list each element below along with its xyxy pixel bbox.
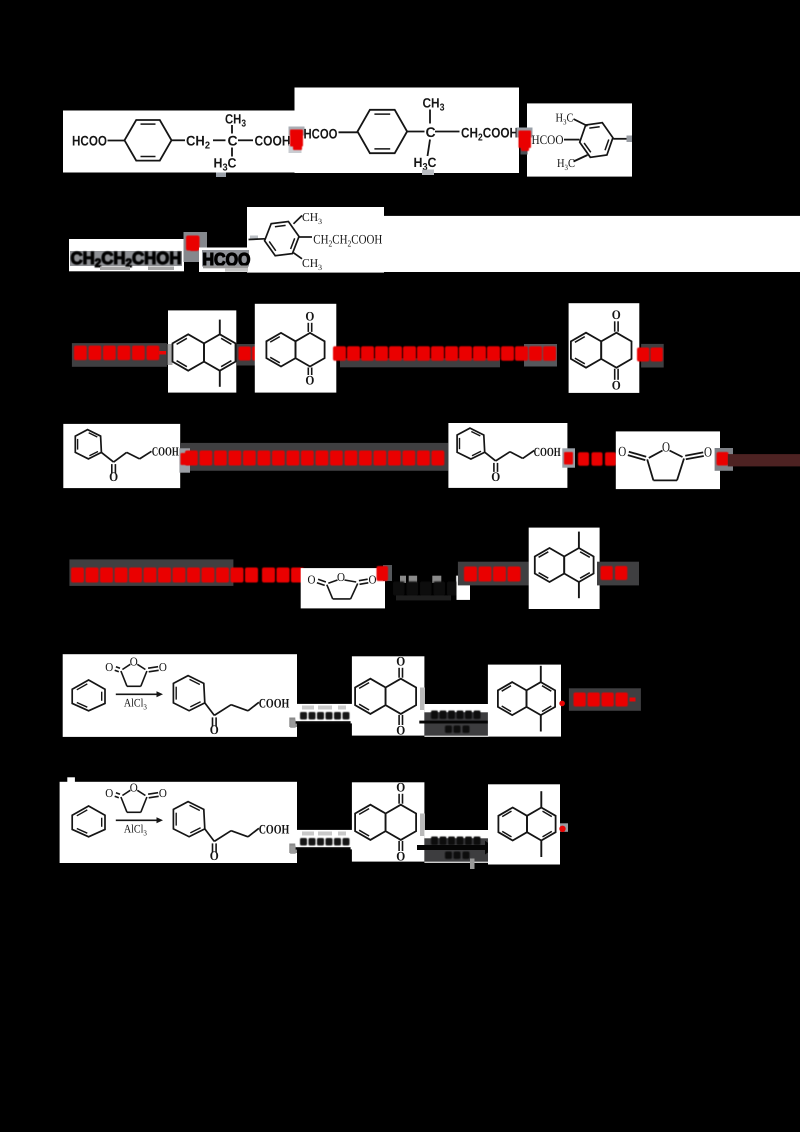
svg-text:O: O [210, 722, 219, 737]
chain row4 a [101, 452, 113, 462]
wire ring-H3C down 3 [574, 155, 588, 162]
grey bar row5 mid [458, 562, 529, 586]
white panel: dimethylnaphthalene product row6 [488, 665, 561, 737]
svg-text:O: O [662, 441, 670, 456]
grey tick right 3 [627, 136, 633, 143]
wire ring-chain row2 [299, 236, 312, 238]
wire O-ring [108, 140, 125, 142]
degraded black condition text row5 [393, 582, 459, 596]
svg-text:O: O [612, 377, 621, 392]
svg-text:COOH: COOH [259, 822, 290, 837]
wire H3C-ring 3 [574, 119, 588, 126]
svg-text:COOH: COOH [259, 696, 290, 711]
grey bar red text row6 [569, 688, 641, 711]
wire CH2-C [213, 139, 226, 141]
wire ring-CH2 [172, 139, 186, 141]
naphthalene row5 [535, 548, 564, 582]
red annotation mark row4 edge a [179, 448, 190, 472]
red annotation text row3 left [74, 346, 159, 361]
red annotation text row4 [185, 451, 444, 466]
wire C-CH2COOH [435, 131, 460, 133]
naphthalene product row7 [498, 808, 527, 841]
grey bar gap2 [424, 712, 493, 735]
red dot row6 [559, 701, 565, 707]
reaction arrow AlCl3 [116, 819, 157, 821]
svg-text:O: O [109, 469, 118, 484]
naphthoquinone row3 b [571, 333, 601, 368]
red annotation text row3 middle [333, 346, 556, 361]
benzene ring (panel 2) [358, 110, 408, 153]
white panel: naphthoquinone product [352, 656, 425, 735]
white panel: dimethylnaphthalene product row7 [488, 784, 560, 864]
grey tick right edge patch1 [289, 718, 297, 728]
svg-text:O: O [396, 653, 405, 668]
white panel: naphthoquinone product [352, 782, 425, 861]
arrow line gap1 [292, 847, 351, 849]
wire ring-right bond 3 [613, 138, 627, 140]
arrow gap2 [417, 845, 485, 850]
svg-text:O: O [704, 446, 712, 461]
white box behind HCOO row2 [199, 248, 260, 273]
grey highlight in box [70, 251, 182, 266]
degraded reagent text gap2 [431, 711, 481, 720]
red annotation mark row3 b [641, 344, 664, 368]
naphthalene product row6 [498, 682, 527, 715]
white strip gap arrow 2 [424, 704, 488, 737]
benzene ring (panel 1) [125, 120, 172, 161]
white panel: trimethylphenyl propanoic acid [247, 207, 384, 273]
degraded reagent text gap2 [431, 837, 481, 846]
benzene reactant [72, 680, 105, 711]
wire left bond row2 [249, 238, 265, 241]
svg-text:O: O [618, 445, 626, 460]
phenyl ring row4 b [457, 428, 485, 459]
red annotation marks row4 right [562, 448, 575, 467]
svg-text:O: O [396, 723, 405, 738]
degraded condition text gap1 [300, 712, 350, 720]
grey bar row5 left [69, 559, 233, 586]
svg-text:O: O [369, 573, 377, 587]
grey smudge right of quinone [420, 688, 425, 711]
white strip gap arrow 1 [295, 704, 352, 724]
phenyl ring row4 a [75, 430, 101, 459]
white panel: benzoylpropionic acid row4 b [448, 423, 567, 488]
red annotation mark row3 a [237, 344, 264, 366]
svg-text:O: O [396, 849, 405, 864]
white strip gap arrow 2 [424, 830, 488, 863]
grey tick right edge patch1 [289, 844, 297, 854]
benzene ring row2 [265, 222, 299, 256]
red dot row7 [560, 823, 568, 832]
red annotation text row5 right [601, 566, 628, 580]
svg-text:COOH: COOH [534, 445, 561, 459]
svg-text:O: O [305, 373, 314, 388]
svg-text:O: O [159, 660, 167, 674]
red annotation mark 1 [289, 127, 305, 136]
white strip gap arrow 1 [295, 830, 352, 850]
benzene reactant [72, 806, 105, 837]
white panel: succinic anhydride row4 [616, 431, 720, 489]
red annotation text row5 left [71, 568, 304, 583]
grey bar gap2 [424, 838, 493, 861]
naphthoquinone scheme [355, 679, 386, 714]
benzene ring (panel 3) [580, 123, 613, 158]
grey tick band top [250, 236, 258, 240]
white panel: reaction scheme benzene+anhydride (dy=0) [63, 654, 297, 737]
white panel: succinic anhydride small row5 [301, 568, 385, 608]
svg-text:O: O [305, 308, 314, 323]
white band row2 [247, 216, 800, 272]
product chain [205, 703, 215, 716]
svg-text:C: C [228, 133, 238, 149]
grey bar row4 [180, 443, 448, 471]
svg-text:COOH: COOH [152, 445, 179, 459]
white panel: dimethylnaphthalene row5 [529, 528, 600, 609]
svg-text:O: O [308, 573, 316, 587]
grey bar under red text row3 [340, 358, 500, 367]
grey tick bottom-left row7 [470, 859, 475, 870]
red annotation text row5 mid [464, 567, 521, 582]
red annotation text row6 [574, 693, 628, 707]
product phenyl ring [173, 676, 204, 711]
white panel: naphthoquinone row3 a [255, 304, 336, 393]
grey smudge right of quinone [420, 814, 425, 837]
wire O-ring 2 [339, 131, 358, 133]
red annotation mark row5 a [383, 565, 392, 581]
wire ring-C 2 [407, 131, 424, 133]
svg-text:HCOO: HCOO [532, 132, 564, 147]
product chain [205, 829, 215, 842]
naphthoquinone row3 a [266, 333, 295, 367]
wire C-H3C down [231, 148, 233, 157]
naphthalene row3 [173, 334, 205, 370]
svg-text:O: O [130, 654, 138, 668]
grey smudge under H3C 2 [422, 170, 434, 176]
white panel: 1,4-dimethylnaphthalene row3 [168, 310, 236, 392]
white panel: trimethylphenyl formate [527, 103, 632, 176]
svg-text:O: O [210, 848, 219, 863]
grey bar row5 right [597, 562, 639, 586]
svg-text:C: C [426, 124, 436, 140]
grey blocks above arrow row5 [400, 576, 406, 583]
white tab right row5 [457, 576, 471, 600]
wire C-CH3 up [231, 125, 233, 134]
red annotation mark 2 [517, 128, 533, 138]
degraded condition text gap2 below [445, 852, 470, 860]
grey smudge under panel1 H3C [216, 173, 226, 178]
svg-text:O: O [337, 570, 345, 584]
white tab left row5 [378, 582, 385, 603]
svg-text:O: O [130, 780, 138, 794]
white panel: formula 1 left [63, 111, 295, 173]
arrow gap2 [419, 721, 490, 724]
reaction arrow AlCl3 [116, 693, 157, 695]
wire C-H3C down 2 [428, 140, 431, 157]
chain row4 b [485, 452, 496, 461]
arrow line gap1 [292, 721, 351, 723]
white panel: benzoylpropionic acid row4 a [63, 424, 180, 488]
wire C-COOH [238, 139, 253, 141]
degraded condition text gap1 [300, 838, 350, 846]
degraded condition text gap2 below [445, 726, 470, 734]
svg-text:HCOO: HCOO [72, 133, 107, 149]
svg-text:O: O [105, 786, 113, 800]
white panel: reaction scheme benzene+anhydride (dy=126) [60, 782, 297, 863]
svg-text:O: O [491, 469, 500, 484]
wire ring-CH3 bottom row2 [294, 253, 303, 259]
white panel: formula 1 right [295, 88, 520, 174]
svg-text:O: O [396, 779, 405, 794]
svg-text:HCOO: HCOO [304, 125, 338, 141]
svg-text:O: O [105, 660, 113, 674]
maroon bar row4 [728, 454, 800, 466]
grey highlight HCOO [202, 250, 249, 267]
wire C-CH3 up 2 [429, 110, 431, 124]
wire O-ring 3 [564, 139, 580, 141]
white panel: naphthoquinone row3 b [569, 303, 640, 393]
svg-text:COOH: COOH [255, 133, 291, 149]
naphthoquinone scheme [355, 805, 386, 840]
red annotation mark row4 after anhydride [715, 448, 733, 471]
white box: degraded formula text [69, 239, 184, 271]
svg-text:O: O [159, 786, 167, 800]
wire ring-CH3 top row2 [294, 216, 303, 224]
red annotation mark row2 [184, 232, 208, 262]
product phenyl ring [173, 802, 204, 837]
svg-text:O: O [612, 307, 621, 322]
grey bar row3 left [72, 343, 167, 367]
